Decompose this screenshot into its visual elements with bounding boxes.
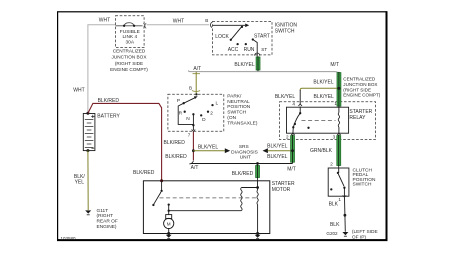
PNP contacts xyxy=(183,102,185,104)
svg-text:SWITCH: SWITCH xyxy=(275,29,295,35)
relay mech dashed xyxy=(302,120,336,122)
battery xyxy=(83,114,95,151)
svg-text:2: 2 xyxy=(286,135,289,140)
svg-text:(RIGHT SIDE: (RIGHT SIDE xyxy=(343,87,371,92)
fusible link element xyxy=(115,23,142,26)
ignition feed line with arrow xyxy=(213,25,246,40)
junction battery negative terminal xyxy=(86,149,89,152)
centralized junction box connector (green bar) xyxy=(337,72,341,108)
svg-text:M/T: M/T xyxy=(287,166,296,172)
svg-text:WHT: WHT xyxy=(173,18,184,24)
ground G11T xyxy=(85,210,91,213)
wire BLK/YEL junction bar to relay terminal 4 xyxy=(300,88,337,90)
svg-text:RELAY: RELAY xyxy=(349,115,366,121)
wire BLK/YEL to SRS diagnosis unit (right) xyxy=(263,148,268,153)
ignition position contacts xyxy=(230,39,232,41)
junction on centralized junction box connector xyxy=(337,87,340,90)
starter pull-in coil xyxy=(241,187,257,189)
svg-text:B: B xyxy=(205,18,208,23)
border frame xyxy=(57,11,387,241)
svg-text:2: 2 xyxy=(210,111,213,117)
svg-text:UNIT: UNIT xyxy=(240,155,251,161)
wire BLK/RED battery to starter motor xyxy=(88,103,162,180)
svg-text:BLK/YEL: BLK/YEL xyxy=(267,144,288,150)
wire BLK clutch to ground xyxy=(344,198,347,232)
svg-text:(LEFT SIDE: (LEFT SIDE xyxy=(352,229,378,235)
wire BLK/YEL battery to ground G11T xyxy=(87,151,89,210)
svg-text:TRANSAXLE): TRANSAXLE) xyxy=(227,120,258,126)
svg-text:4: 4 xyxy=(292,101,295,106)
park/neutral position switch box (dashed) xyxy=(168,94,224,131)
starter contact to motor xyxy=(168,203,170,205)
relay terminal 2 xyxy=(291,134,295,135)
svg-text:BLK/YEL: BLK/YEL xyxy=(234,62,255,68)
svg-text:JUNCTION BOX: JUNCTION BOX xyxy=(343,82,377,87)
svg-text:BLK/RED: BLK/RED xyxy=(98,98,120,104)
wire BLK/RED from PNP switch terminal 7 xyxy=(192,132,194,161)
svg-text:DIAGNOSIS: DIAGNOSIS xyxy=(231,149,258,155)
svg-text:ENGINE COMPT): ENGINE COMPT) xyxy=(110,67,148,72)
PNP blade with arrow xyxy=(184,98,195,103)
svg-text:R: R xyxy=(179,111,183,117)
connector (green bar) starter solenoid xyxy=(255,164,259,182)
svg-text:BLK/RED: BLK/RED xyxy=(165,154,187,160)
svg-text:ST: ST xyxy=(261,47,267,52)
connector symbol at fusible box right edge xyxy=(143,23,146,28)
svg-text:BLK/RED: BLK/RED xyxy=(232,171,254,177)
svg-text:MOTOR: MOTOR xyxy=(272,187,291,193)
starter contact switch xyxy=(160,179,163,182)
svg-text:BLK/YEL: BLK/YEL xyxy=(267,154,288,160)
svg-text:NEUTRAL: NEUTRAL xyxy=(227,99,250,105)
A/T option break xyxy=(189,161,193,164)
starter motor box xyxy=(143,181,269,234)
svg-text:SWITCH: SWITCH xyxy=(353,182,372,188)
junction solenoid S terminal to coils xyxy=(256,186,259,189)
connector (green bar) relay terminal 2 M/T xyxy=(290,135,294,164)
svg-text:3: 3 xyxy=(333,135,336,140)
svg-text:103580: 103580 xyxy=(61,236,77,241)
clutch pedal position switch box xyxy=(328,168,349,196)
svg-text:RUN: RUN xyxy=(244,47,255,53)
clutch switch contacts xyxy=(338,168,340,173)
terminal ST wire xyxy=(253,40,257,57)
connector (green bar) relay terminal 3 to clutch switch xyxy=(337,135,341,169)
svg-text:(RIGHT SIDE: (RIGHT SIDE xyxy=(115,61,143,66)
relay fixed contact (N.O.) xyxy=(307,127,309,129)
svg-text:PARK/: PARK/ xyxy=(227,93,242,99)
svg-text:7: 7 xyxy=(188,133,191,138)
svg-text:BLK: BLK xyxy=(329,202,339,208)
starter relay inner box xyxy=(287,107,349,133)
svg-text:B: B xyxy=(189,86,192,91)
ground starter solenoid coil xyxy=(256,232,259,235)
fusible link 4 box (dashed) xyxy=(115,16,144,48)
svg-text:CENTRALIZED: CENTRALIZED xyxy=(343,77,376,82)
svg-text:WHT: WHT xyxy=(73,88,84,94)
svg-text:LOCK: LOCK xyxy=(215,34,229,40)
svg-text:2: 2 xyxy=(330,162,333,167)
svg-text:YEL: YEL xyxy=(75,180,85,186)
svg-text:ENGINE): ENGINE) xyxy=(97,224,117,230)
starter relay box (dashed) xyxy=(280,102,376,140)
svg-text:BLK/YEL: BLK/YEL xyxy=(313,79,334,85)
svg-text:BLK/YEL: BLK/YEL xyxy=(198,144,219,150)
svg-text:G11T: G11T xyxy=(97,208,109,214)
svg-text:G202: G202 xyxy=(326,231,338,236)
svg-text:30A: 30A xyxy=(126,39,135,45)
junction starter solenoid feed tee xyxy=(256,162,259,165)
starter motor M xyxy=(166,215,172,219)
svg-text:N: N xyxy=(186,116,190,122)
svg-text:BLK/RED: BLK/RED xyxy=(163,140,185,146)
wire A/T - M/T join to starter xyxy=(191,163,293,165)
svg-text:ACC: ACC xyxy=(228,47,239,53)
wire WHT battery to fusible link xyxy=(88,25,209,113)
svg-text:JUNCTION BOX: JUNCTION BOX xyxy=(112,55,148,60)
svg-text:M/T: M/T xyxy=(330,62,339,68)
ground G202 xyxy=(342,232,348,235)
svg-text:A/T: A/T xyxy=(193,66,201,72)
starter hold-in coil / solenoid feed xyxy=(257,181,259,190)
svg-text:P: P xyxy=(177,98,180,104)
svg-text:L: L xyxy=(215,100,218,106)
svg-text:SWITCH: SWITCH xyxy=(227,110,246,116)
svg-text:BLK/YEL: BLK/YEL xyxy=(314,94,335,100)
svg-text:START: START xyxy=(254,33,270,39)
svg-text:BLK: BLK xyxy=(330,222,340,228)
ignition switch box (dashed) xyxy=(213,21,273,55)
junction A/T wire to SRS branch xyxy=(192,149,195,152)
svg-text:(RIGHT: (RIGHT xyxy=(97,213,114,219)
wire BLK/YEL to SRS diagnosis unit (left) xyxy=(193,150,225,152)
svg-text:REAR OF: REAR OF xyxy=(97,219,118,225)
PNP internal wiring xyxy=(178,103,193,124)
svg-text:SRS: SRS xyxy=(239,144,249,150)
svg-text:LINK 4: LINK 4 xyxy=(122,34,137,40)
svg-text:(ON: (ON xyxy=(227,115,236,121)
ground starter motor xyxy=(167,232,170,235)
main gray wire from ignition to M/T junction bar xyxy=(189,70,339,75)
svg-text:BLK/RED: BLK/RED xyxy=(133,170,155,176)
svg-text:BATTERY: BATTERY xyxy=(97,113,120,119)
svg-text:M: M xyxy=(167,221,171,226)
svg-text:GRN/BLK: GRN/BLK xyxy=(310,148,333,154)
svg-text:OF IP): OF IP) xyxy=(352,235,367,241)
svg-text:IGNITION: IGNITION xyxy=(275,22,298,28)
connector (green bar) ignition ST xyxy=(256,56,260,72)
svg-text:A/T: A/T xyxy=(191,165,199,171)
svg-text:POSITION: POSITION xyxy=(227,104,250,110)
svg-text:CENTRALIZED: CENTRALIZED xyxy=(113,48,146,53)
svg-text:WHT: WHT xyxy=(99,18,110,24)
svg-text:BLK/YEL: BLK/YEL xyxy=(275,94,296,100)
svg-text:D: D xyxy=(202,117,206,123)
svg-text:ENGINE COMPT): ENGINE COMPT) xyxy=(343,93,380,98)
junction battery positive terminal xyxy=(86,112,89,115)
splice on clutch switch ground wire xyxy=(344,214,347,217)
BLK/YEL drop to park/neutral switch (inline connector) xyxy=(192,72,200,95)
svg-text:1: 1 xyxy=(338,197,341,202)
relay contact blade xyxy=(293,113,300,127)
mechanical dashed link xyxy=(160,197,258,199)
junction on M/T connector to SRS branch xyxy=(291,149,294,152)
svg-text:FUSIBLE: FUSIBLE xyxy=(120,29,140,35)
